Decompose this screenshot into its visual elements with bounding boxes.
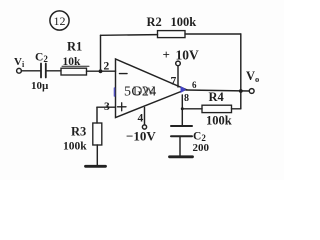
wire R1 to node A	[87, 70, 116, 72]
svg-text:100k: 100k	[206, 114, 232, 128]
wire C2 bottom stem	[179, 136, 181, 155]
svg-text:C2: C2	[35, 52, 48, 65]
wire pin8 down	[181, 95, 183, 126]
svg-text:12: 12	[54, 14, 66, 28]
svg-text:−10V: −10V	[126, 129, 156, 144]
node output junction	[239, 89, 243, 93]
label +10V	[163, 47, 200, 63]
wire pin7 up	[177, 66, 179, 87]
op-amp U1 triangle	[116, 59, 187, 118]
blue mark at op-amp output tip	[181, 86, 187, 93]
svg-text:4: 4	[138, 113, 144, 125]
svg-text:7: 7	[171, 76, 177, 88]
blue mark left edge	[114, 88, 116, 96]
wire pin3 down to R3	[96, 107, 98, 123]
resistor R2	[158, 31, 186, 38]
svg-text:R1: R1	[67, 40, 82, 54]
svg-text:R4: R4	[209, 90, 225, 104]
op-amp inverting minus sign	[120, 73, 128, 75]
wire junction to R4	[182, 108, 202, 110]
op-amp type blue text 5G24	[124, 83, 157, 100]
svg-text:+: +	[163, 47, 170, 62]
ground (C2)	[170, 155, 193, 158]
capacitor C2 (input, 10u)	[41, 64, 46, 78]
node Vo terminal	[249, 89, 254, 94]
node -10V terminal circle	[142, 125, 146, 129]
wire output to Vo	[186, 90, 249, 91]
wire feedback riser right	[240, 34, 242, 91]
node Vi input terminal	[17, 68, 22, 73]
svg-text:10V: 10V	[176, 48, 200, 63]
resistor R1	[61, 68, 87, 75]
op-amp non-inverting plus sign	[118, 103, 127, 111]
node pin8/R4 junction	[181, 107, 184, 110]
svg-text:R2: R2	[147, 15, 162, 29]
svg-text:200: 200	[193, 142, 210, 154]
wire feedback top right segment	[185, 33, 241, 35]
wire feedback riser left	[100, 35, 102, 71]
wire Vi terminal to C2	[21, 70, 40, 72]
svg-text:100k: 100k	[63, 141, 87, 153]
node +10V terminal circle	[176, 61, 181, 66]
resistor R3	[93, 123, 102, 145]
svg-text:Vo: Vo	[246, 69, 259, 84]
svg-text:R3: R3	[71, 125, 86, 139]
svg-text:8: 8	[184, 93, 189, 104]
wire C2 to R1	[46, 70, 61, 72]
svg-text:Vi: Vi	[14, 56, 25, 69]
svg-text:6: 6	[192, 80, 197, 90]
capacitor C2 (output, 200)	[171, 126, 192, 136]
wire pin3 horizontal	[97, 106, 116, 108]
svg-text:10µ: 10µ	[31, 80, 49, 92]
wire R4 right	[232, 108, 241, 110]
svg-text:100k: 100k	[171, 15, 197, 29]
figure number 12 circle	[50, 11, 69, 30]
svg-text:DW: DW	[133, 83, 155, 98]
node A junction (inverting input)	[99, 69, 103, 73]
wire pin4 down	[144, 108, 146, 125]
wire R3 to ground	[96, 145, 98, 166]
svg-text:2: 2	[104, 61, 110, 73]
underline under 10k	[62, 65, 89, 67]
wire feedback top left segment	[101, 34, 158, 37]
ground (R3)	[86, 165, 106, 168]
resistor R4	[202, 105, 232, 112]
wire R4 riser to output node	[240, 91, 242, 109]
